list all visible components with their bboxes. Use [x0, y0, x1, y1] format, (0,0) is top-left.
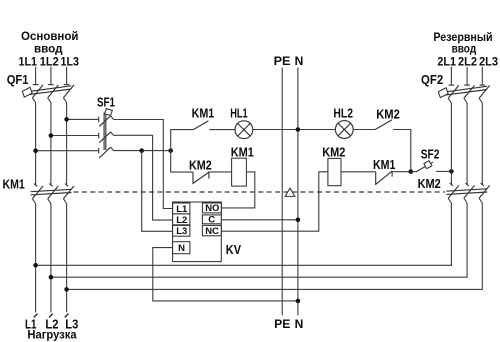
wire 1L2 stub	[50, 67, 52, 85]
label Основной ввод	[21, 29, 79, 56]
node control junction	[168, 148, 173, 153]
svg-text:1L2: 1L2	[40, 55, 59, 69]
svg-text:N: N	[178, 243, 185, 254]
lamp HL1	[235, 121, 253, 139]
svg-text:NO: NO	[205, 203, 219, 214]
contact KM2 NC	[193, 172, 232, 184]
wire PE vertical	[281, 68, 283, 316]
wire N vertical	[297, 68, 299, 316]
svg-text:2L2: 2L2	[458, 55, 477, 69]
wire KM2 pole3 to bus3	[67, 203, 483, 289]
svg-text:KM1: KM1	[231, 145, 254, 159]
svg-text:KM2: KM2	[322, 145, 345, 159]
node lamp line on N	[296, 127, 301, 132]
node N bottom	[296, 299, 301, 304]
svg-text:L3: L3	[176, 226, 187, 237]
wire SF1 out3	[114, 150, 171, 152]
node junction pole2	[49, 133, 54, 138]
svg-text:1L1: 1L1	[19, 55, 38, 69]
svg-text:Нагрузка: Нагрузка	[27, 330, 77, 342]
wire 2L3 stub	[481, 67, 483, 85]
wire riser to lamp line	[171, 130, 194, 151]
contact KM1 NO	[193, 121, 235, 130]
label PE N top	[274, 54, 304, 68]
svg-text:KM1: KM1	[192, 107, 215, 121]
breaker QF1	[22, 85, 74, 103]
svg-text:PE: PE	[274, 317, 290, 331]
contactor KM1	[31, 184, 75, 204]
wire HL1 to HL2	[253, 129, 335, 131]
wire QF1 pole3 down	[66, 103, 68, 186]
relay KV box	[173, 202, 222, 262]
node junction pole1	[33, 148, 38, 153]
wire QF1 pole2 to SF1	[51, 135, 98, 137]
wire 1L1 stub	[35, 67, 37, 85]
svg-text:KM2: KM2	[418, 177, 441, 191]
wire KM1 coil to KV NO	[221, 172, 255, 208]
node control junction right	[409, 169, 414, 174]
wire QF2 pole3 down	[481, 103, 483, 185]
svg-text:SF2: SF2	[421, 148, 440, 162]
svg-text:KM1: KM1	[3, 178, 25, 192]
svg-text:QF1: QF1	[7, 73, 29, 87]
interlock dashed line	[74, 191, 446, 193]
coil KM2	[328, 158, 341, 185]
svg-text:C: C	[208, 214, 215, 225]
wire branch to KV L3	[142, 151, 173, 232]
svg-text:KM2: KM2	[189, 158, 212, 172]
svg-text:L2: L2	[176, 215, 187, 226]
svg-text:HL2: HL2	[333, 106, 353, 120]
load terminal tick L3	[65, 314, 69, 318]
svg-text:L1: L1	[176, 204, 188, 215]
node junction pole3	[64, 117, 69, 122]
earth triangle	[285, 188, 295, 196]
node branch L3	[139, 148, 144, 153]
label PE N bottom	[274, 317, 303, 331]
wire load phase2	[50, 204, 52, 313]
wire SF1 out2	[114, 135, 173, 220]
node bus2 tap	[49, 275, 54, 280]
wire KV NC to KM2 coil	[221, 172, 328, 231]
wire 2L1 stub	[450, 67, 452, 85]
svg-text:KM2: KM2	[376, 107, 400, 121]
contactor KM2	[446, 183, 489, 203]
lamp HL2	[335, 121, 353, 139]
wire KV C to N	[221, 219, 298, 221]
svg-text:ввод: ввод	[452, 41, 477, 55]
breaker QF2	[438, 85, 489, 103]
load terminal tick L1	[34, 314, 38, 318]
node SF2 tap on QF2 pole1	[449, 169, 454, 174]
wire QF1 pole1 down	[35, 103, 37, 186]
wire KM2 pole1 to bus1	[36, 203, 452, 265]
svg-text:2L1: 2L1	[437, 55, 456, 69]
svg-text:NC: NC	[205, 226, 219, 237]
node bus3 tap	[64, 287, 69, 292]
svg-text:PE: PE	[274, 54, 291, 68]
wire 2L2 stub	[466, 67, 468, 85]
wire QF2 pole2 down	[466, 103, 468, 185]
breaker SF1	[99, 109, 114, 158]
svg-text:N: N	[295, 54, 304, 68]
wire 1L3 stub	[66, 67, 68, 85]
wire KV N down	[153, 248, 298, 301]
svg-text:HL1: HL1	[230, 106, 248, 120]
contact KM2 NO	[353, 120, 411, 172]
svg-text:KM1: KM1	[373, 158, 395, 172]
node C on N	[296, 218, 301, 223]
wire QF1 pole3 to SF1	[67, 118, 98, 120]
load terminal tick L2	[49, 314, 53, 318]
svg-text:N: N	[295, 317, 304, 331]
svg-text:SF1: SF1	[97, 96, 115, 110]
wire QF2 pole1 down	[450, 103, 452, 185]
contact KM1 NC	[341, 171, 411, 185]
svg-text:QF2: QF2	[421, 73, 443, 87]
node bus1 tap	[33, 263, 38, 268]
svg-text:1L3: 1L3	[61, 55, 80, 69]
svg-text:ввод: ввод	[34, 41, 63, 55]
wire QF1 pole2 down	[50, 103, 52, 186]
coil KM1	[232, 158, 247, 186]
label Резервный ввод	[433, 30, 492, 56]
wire load phase3	[66, 204, 68, 313]
svg-text:2L3: 2L3	[479, 55, 498, 69]
relay KV terminal labels	[176, 203, 219, 254]
wire load phase1	[35, 204, 37, 313]
wire riser to coil line	[171, 151, 193, 173]
wire KM2 pole2 to bus2	[51, 203, 467, 277]
wire SF1 out1	[114, 120, 173, 209]
breaker SF2	[411, 161, 452, 172]
svg-text:KV: KV	[226, 242, 241, 257]
wire QF1 pole1 to SF1	[36, 150, 98, 152]
